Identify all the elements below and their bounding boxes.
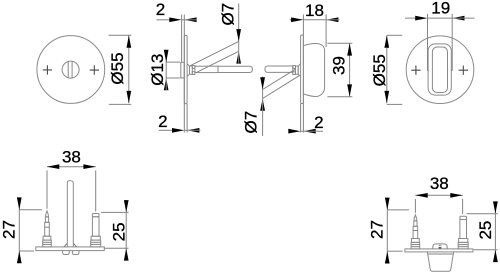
svg-text:39: 39 (329, 56, 348, 75)
slot line left (67, 62, 69, 78)
screw cross right (90, 65, 99, 74)
dim A Ø55 arrow down (127, 91, 132, 103)
right post collar line 2 (91, 243, 101, 245)
dim B 2 top arrow left-pointing (184, 17, 196, 22)
dim B 2 bottom dimension line right (187, 129, 200, 131)
dim C 18 dimension line left (290, 19, 294, 21)
dim D 19 arrow right-pointing (415, 16, 427, 21)
dim C 2 dimension line middle (301, 130, 304, 132)
dim F 38 extension right (462, 199, 464, 214)
dim E 27 arrow up-pointing (17, 251, 22, 263)
tilted spindle lower edge (263, 76, 300, 99)
dim F 27 extension top (387, 209, 409, 211)
dim F 27 extension bottom (387, 250, 402, 252)
dim C 39 extension top (327, 42, 352, 44)
dim C 2 dimension line left (289, 130, 291, 132)
dim E 38 dimension line (47, 166, 96, 168)
center post base flare left (64, 243, 68, 247)
view B: side view flat rosette (148, 0, 252, 133)
oval tab on plate (433, 244, 447, 249)
thumbturn bucket below plate (427, 252, 453, 271)
dim E 38 extension right (95, 170, 97, 211)
dim F 25 dimension line (494, 204, 496, 261)
collar body (190, 66, 193, 74)
dim B Ø13 dimension line lower (165, 78, 167, 90)
right post collar upper (459, 239, 468, 243)
left screw collar lower (411, 242, 420, 249)
rose plate side bar (184, 35, 187, 103)
left screw thread line (413, 230, 418, 232)
view F: bottom view outside rosette (368, 174, 498, 271)
screw cross left (411, 66, 420, 75)
collar screw square top (293, 66, 296, 69)
center spindle post (67, 181, 73, 247)
dim C Ø7 leader line lower (262, 99, 264, 137)
right post collar line 1 (458, 244, 468, 246)
svg-text:Ø13: Ø13 (148, 54, 167, 86)
dome cover profile (303, 43, 324, 96)
dim A Ø55 dimension line (128, 35, 130, 103)
hub Ø13 side (181, 62, 185, 78)
left screw tip (46, 211, 49, 217)
right post collar line 1 (91, 241, 101, 243)
dim D Ø55 extension bottom (387, 103, 403, 105)
dim F 38 dimension line (415, 194, 462, 196)
svg-text:27: 27 (0, 220, 19, 239)
dim C 18 dimension line middle (303, 19, 326, 21)
dim F 25 arrow up-pointing (493, 250, 498, 262)
svg-text:Ø7: Ø7 (218, 3, 237, 26)
dim D 19 dimension line middle (428, 17, 453, 19)
center post base flare right (73, 243, 77, 247)
spindle segment near (195, 66, 218, 72)
base plate (36, 247, 105, 251)
dim E 27 extension top (19, 209, 42, 211)
dim F 27 arrow down-pointing (385, 198, 390, 210)
dim F 25 arrow down-pointing (493, 201, 498, 213)
dim D 19 dimension line left (405, 17, 417, 19)
dim D 19 dimension line right (452, 17, 474, 19)
left screw collar line 1 (411, 244, 420, 246)
dim C 18 arrow right-pointing (291, 17, 303, 22)
dim B 2 bottom arrow left-pointing (187, 128, 199, 133)
dim B 2 bottom dimension line middle (184, 129, 187, 131)
rose plate circle Ø55 (37, 36, 105, 104)
view C: side view domed rosette (241, 1, 352, 136)
oval tab notch left (438, 245, 440, 246)
dim E 38 extension left (46, 170, 48, 208)
svg-text:25: 25 (109, 222, 128, 241)
svg-text:38: 38 (62, 147, 81, 166)
oval tab center slot (439, 247, 442, 249)
right post body (460, 220, 467, 239)
left screw neck (45, 217, 48, 222)
svg-text:2: 2 (158, 112, 167, 131)
right post body (92, 217, 99, 236)
dim E 38 arrow right-pointing (83, 164, 95, 169)
left screw thread line (45, 226, 50, 228)
dim C 2 arrow right-pointing (288, 129, 300, 134)
oval thumbturn inner (432, 47, 447, 93)
right post collar line 2 (458, 246, 468, 248)
svg-text:Ø55: Ø55 (370, 54, 389, 86)
dim B 2 bottom arrow right-pointing (172, 128, 184, 133)
collar screw square bottom (293, 72, 296, 75)
dim D Ø55 arrow up (384, 35, 389, 47)
dim B Ø7 dimension line middle (238, 41, 240, 51)
left screw collar line 1 (43, 241, 52, 243)
screw cross right (459, 66, 468, 75)
hub lobe right (72, 251, 79, 255)
extension line C lower (186, 104, 188, 133)
dim D 19 extension right (451, 14, 453, 71)
dim B Ø13 extension top (166, 61, 181, 63)
dim F 27 arrow up-pointing (385, 251, 390, 263)
hub lobes under plate (63, 251, 70, 255)
left screw collar upper (43, 236, 51, 240)
view A: rosette front (inside) (37, 35, 131, 104)
bucket lip line (428, 253, 453, 255)
left screw collar line 2 (43, 243, 52, 245)
collar screw square bottom (192, 72, 195, 75)
dim C 39 extension bottom (327, 96, 352, 98)
spindle rod with round cap left (265, 66, 293, 72)
rose plate circle Ø55 (406, 36, 474, 104)
dim A Ø55 arrow up (127, 35, 132, 47)
dim B Ø7 leader line upper (238, 4, 240, 42)
left screw neck (414, 221, 417, 226)
dim B 2 bottom dimension line left (159, 129, 174, 131)
dim C 18 dimension line right (326, 19, 339, 21)
dim C 39 dimension line (349, 43, 351, 96)
svg-text:18: 18 (305, 1, 324, 20)
collar flare (298, 64, 300, 77)
dim C Ø7 arrow up-pointing (260, 99, 265, 111)
extension line long right (302, 15, 304, 133)
dim F 25 extension bottom (474, 249, 498, 251)
tilted spindle upper edge (190, 41, 239, 65)
dim B Ø13 dimension line upper (165, 50, 167, 62)
dim C 2 arrow left-pointing (303, 129, 315, 134)
dim F 27 dimension line (386, 200, 388, 261)
slot line right (71, 62, 73, 78)
dim F 25 extension top (467, 213, 498, 215)
right post collar upper (91, 236, 100, 240)
dim F 38 arrow left-pointing (415, 193, 427, 198)
left screw collar lower (43, 240, 52, 247)
dim B 2 top dimension line left (156, 19, 171, 21)
dim C 39 arrow down (347, 84, 352, 96)
left screw collar upper (412, 239, 420, 243)
dim D 19 extension left (427, 14, 429, 71)
dim A Ø55 extension top (109, 34, 132, 36)
dim C 39 arrow up (347, 43, 352, 55)
dim C 2 dimension line right (303, 130, 323, 132)
dim B Ø13 dimension line middle (165, 62, 167, 78)
dim E 27 dimension line (18, 200, 20, 261)
left screw tip (414, 215, 417, 221)
dim B Ø7 arrow down-pointing (236, 29, 241, 41)
dim B Ø13 arrow down-pointing (164, 50, 169, 62)
dim C 18 arrow left-pointing (326, 17, 338, 22)
dim E 25 arrow up-pointing (124, 248, 129, 260)
dim C Ø7 dimension line middle (262, 90, 264, 99)
svg-text:Ø7: Ø7 (241, 111, 260, 134)
dim F 38 extension left (414, 199, 416, 213)
svg-text:2: 2 (156, 0, 165, 19)
dim B Ø13 extension bottom (166, 77, 181, 79)
collar body (295, 66, 298, 74)
svg-text:38: 38 (430, 174, 449, 193)
dim B Ø7 arrow up-pointing (236, 51, 241, 63)
right post collar lower (91, 240, 101, 247)
dim B 2 top dimension line middle (182, 19, 185, 21)
view D: rosette front with oval turn (outside) (370, 0, 474, 104)
dim E 27 arrow down-pointing (17, 197, 22, 209)
dim D Ø55 extension top (387, 34, 403, 36)
left screw threaded body (413, 226, 418, 238)
tilted spindle lower edge (196, 51, 239, 72)
view E: bottom view inside rosette (0, 147, 129, 263)
dim B 2 top dimension line right (184, 19, 196, 21)
dim C 18 extension right (325, 14, 327, 47)
tilted spindle upper edge (263, 69, 296, 90)
dim E 25 extension bottom (105, 247, 129, 249)
right post collar lower (458, 242, 468, 249)
right post cap (92, 214, 99, 217)
dim D Ø55 dimension line (386, 35, 388, 103)
dim F 38 arrow right-pointing (450, 193, 462, 198)
dim D Ø55 arrow down (384, 91, 389, 103)
dim E 25 dimension line (125, 203, 127, 259)
left screw threaded body (45, 222, 50, 236)
svg-text:Ø55: Ø55 (108, 52, 127, 84)
dim E 25 arrow down-pointing (124, 200, 129, 212)
dim E 25 extension top (101, 211, 129, 213)
rose plate side bar (301, 35, 304, 104)
base plate (405, 249, 473, 252)
svg-text:25: 25 (476, 221, 495, 240)
dim B 2 top arrow right-pointing (169, 17, 181, 22)
dim E 38 arrow left-pointing (47, 164, 59, 169)
collar flare (187, 64, 189, 77)
oval thumbturn outer (428, 44, 451, 95)
dim B Ø13 arrow up-pointing (164, 78, 169, 90)
extension line A long (181, 15, 183, 63)
svg-text:27: 27 (368, 220, 387, 239)
dim A Ø55 extension bottom (109, 103, 132, 105)
right post cap (460, 216, 467, 219)
dim D 19 arrow left-pointing (452, 16, 464, 21)
extension line lower left (300, 104, 302, 133)
oval tab notch right (440, 245, 442, 246)
dim C Ø7 leader line upper (262, 77, 264, 90)
left screw collar line 2 (411, 246, 420, 248)
dim E 27 extension bottom (19, 250, 34, 252)
screw cross left (43, 65, 52, 74)
spindle rod far with round cap (218, 66, 252, 72)
dim B Ø7 leader line lower (238, 51, 240, 64)
dim C Ø7 arrow down-pointing (260, 77, 265, 89)
extension line B long (183, 15, 185, 133)
thumbturn hub circle (62, 61, 79, 78)
svg-text:19: 19 (431, 0, 450, 18)
collar screw square top (192, 66, 195, 69)
